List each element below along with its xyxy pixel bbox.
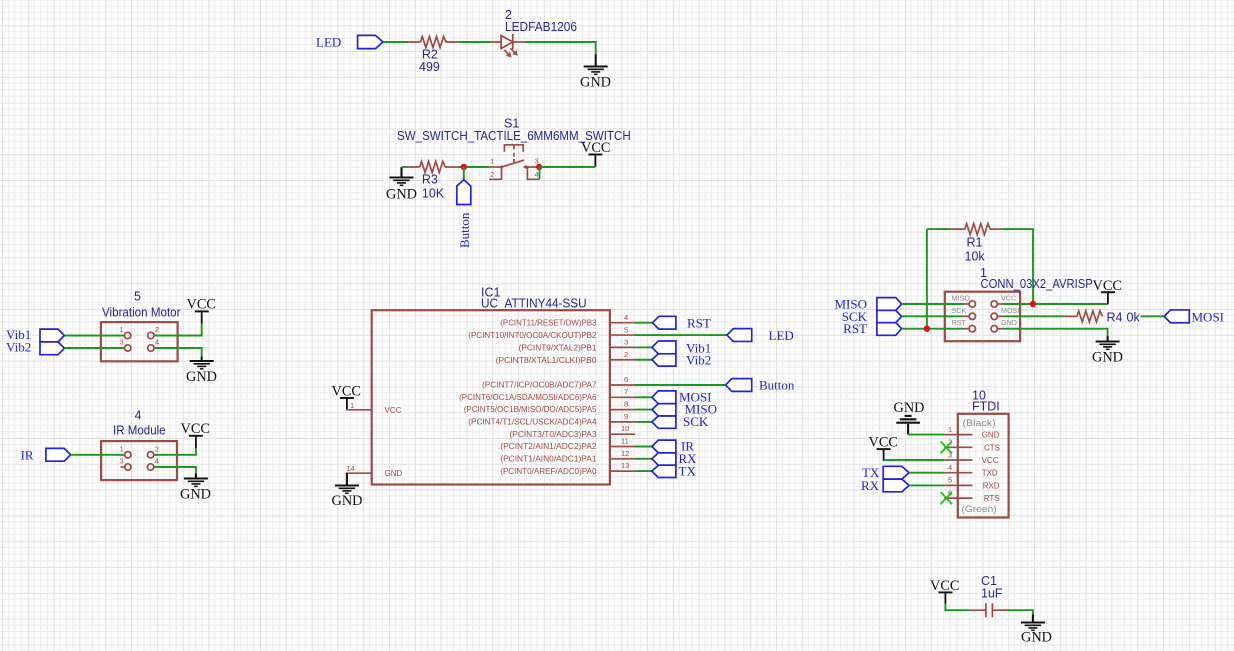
svg-text:13: 13 [621,461,629,470]
supply VCC (motor) [187,297,216,324]
port flag Vib2 (left) [6,340,64,355]
port flag Vib2 (IC) [652,353,711,368]
wire SCK flag to pad [902,315,964,317]
svg-text:GND: GND [180,487,211,503]
svg-text:TXD: TXD [982,469,998,478]
resistor R1 [952,224,1002,264]
wire D1 to GND [525,42,596,55]
svg-text:1: 1 [948,425,952,434]
svg-text:4: 4 [155,338,159,347]
svg-text:MOSI: MOSI [1192,309,1225,324]
supply VCC (IC left) [332,384,361,411]
wire junction to Button flag [463,167,465,180]
pin 6 RTS (FTDI) [944,488,999,503]
svg-text:MISO: MISO [952,294,971,303]
supply VCC (switch) [581,140,610,167]
wire R4 to MOSI flag [1141,315,1165,317]
pad RST (conn) [952,318,976,332]
svg-text:1: 1 [490,157,494,166]
svg-text:(PCINT0/AREF/ADC0)PA0: (PCINT0/AREF/ADC0)PA0 [500,467,597,476]
port flag RST (left) [843,321,901,336]
svg-text:Button: Button [759,377,795,392]
svg-text:2: 2 [624,350,628,359]
ground GND (FTDI) flipped [894,400,925,435]
wire pin6 to Button [635,384,726,386]
switch S1 symbol [489,145,539,180]
svg-text:7: 7 [624,387,628,396]
svg-text:MOSI: MOSI [1001,306,1019,315]
ground GND (C1) [1021,623,1052,646]
connector FTDI box [958,414,1009,518]
svg-text:LEDFAB1206: LEDFAB1206 [505,20,577,34]
pad 2 (motor) [148,325,159,339]
svg-text:3: 3 [624,338,628,347]
wire VCC to pin3 [884,459,945,461]
wire RST flag to pad [902,328,964,330]
wire pin12 to RX [635,458,652,460]
pin 5 RXD (FTDI) [944,476,1000,491]
svg-text:5: 5 [948,476,952,485]
wire pin11 to IR [635,446,652,448]
ground GND (motor) [186,361,217,385]
svg-text:VCC: VCC [1093,278,1122,294]
svg-text:Vib2: Vib2 [6,340,31,355]
port flag RX (FTDI) [861,478,909,493]
supply VCC (IR) [181,421,210,448]
wire C1 to GND [1007,610,1033,614]
svg-text:5: 5 [624,325,628,334]
port flag SCK (left) [842,309,902,324]
wire pin9 to SCK [635,421,652,423]
svg-text:4: 4 [535,170,539,179]
junction dot RST/R1 [924,326,930,332]
port flag SCK (IC) [652,414,709,429]
svg-text:SCK: SCK [952,306,967,315]
svg-text:GND: GND [1021,629,1052,645]
pin 2 CTS (FTDI) [944,438,1000,453]
svg-text:(Black): (Black) [963,418,996,428]
wire pin3 to Vib1 [635,346,652,348]
ground GND (IC left) [332,473,363,509]
svg-text:10k: 10k [965,250,986,264]
pad VCC (conn) [991,294,1016,308]
svg-text:VCC: VCC [187,297,216,313]
svg-text:VCC: VCC [1001,294,1016,303]
wire pad4 to GND [155,348,202,357]
svg-text:GND: GND [385,469,403,478]
resistor R3 [407,162,458,201]
pin 12 PA1 [500,449,635,464]
wire pin2 to Vib2 [635,359,652,361]
supply VCC (conn) [1093,278,1122,304]
pad 1 (motor) [120,325,131,339]
supply VCC (FTDI) [869,434,898,461]
wire pin13 to TX [635,470,652,472]
svg-text:GND: GND [386,187,417,203]
svg-text:GND: GND [894,400,925,416]
svg-text:LED: LED [316,35,341,50]
svg-text:1: 1 [350,401,354,410]
pad 2 (IR) [147,444,158,458]
ground GND (LED) [580,55,611,91]
svg-text:Vibration Motor: Vibration Motor [102,306,181,320]
wire VCC to C1 [945,604,969,611]
pad SCK (conn) [952,306,976,320]
svg-text:GND: GND [1092,350,1123,366]
port flag IR (IC) [652,439,694,454]
pad 3 (IR) [120,457,132,471]
svg-text:1: 1 [120,325,124,334]
wire VCC pad to VCC supply [1003,303,1108,305]
svg-text:GND: GND [1001,318,1017,327]
svg-text:9: 9 [624,412,628,421]
capacitor C1 [970,574,1007,617]
svg-text:(PCINT1/AIN0/ADC1)PA1: (PCINT1/AIN0/ADC1)PA1 [500,455,597,464]
svg-text:GND: GND [332,493,363,509]
port flag LED [316,35,383,50]
pin 6 PA7 [482,375,635,390]
pin 11 PA2 [500,437,635,452]
svg-text:R3: R3 [422,173,438,187]
wire R1 right branch [1001,229,1033,304]
junction dot VCC/R1 [1030,301,1036,307]
svg-text:VCC: VCC [930,578,959,594]
wire pad2 to VCC [155,323,202,336]
svg-text:VCC: VCC [581,140,610,156]
port flag TX (IC) [652,463,697,478]
wire junction to pin4 [539,168,541,180]
svg-text:(PCINT2/AIN1/ADC2)PA2: (PCINT2/AIN1/ADC2)PA2 [500,442,597,451]
svg-text:(PCINT6/OC1A/SDA/MOSI/ADC6)PA6: (PCINT6/OC1A/SDA/MOSI/ADC6)PA6 [459,393,597,402]
svg-text:2: 2 [155,444,159,453]
svg-text:(PCINT3/T0/ADC3)PA3: (PCINT3/T0/ADC3)PA3 [510,430,598,439]
svg-text:RXD: RXD [983,481,1000,490]
pin 4 TXD (FTDI) [944,463,998,478]
svg-text:1: 1 [120,444,124,453]
port flag TX (FTDI) [862,465,909,480]
svg-text:4: 4 [948,463,952,472]
svg-text:2: 2 [490,170,494,179]
pin 10 PA3 [510,424,636,439]
svg-text:CTS: CTS [984,443,1000,452]
pin 3 PB1 [519,338,635,353]
svg-text:(PCINT7/ICP/OC0B/ADC7)PA7: (PCINT7/ICP/OC0B/ADC7)PA7 [482,380,597,389]
svg-text:VCC: VCC [385,406,402,415]
resistor R4 [1064,310,1141,324]
pad 4 (IR) [147,457,158,471]
ground GND (IR) [180,479,211,503]
pad GND (conn) [991,318,1017,332]
no-connect X on CTS [941,441,952,453]
pin 4 PB3 [500,313,635,328]
pin 1 GND (FTDI) [944,425,999,440]
connector IR Module box [101,441,177,480]
port flag MOSI (right) [1164,309,1224,324]
pad MISO (conn) [952,294,976,308]
port flag Button (IC) [726,377,795,392]
svg-text:IR Module: IR Module [113,424,166,438]
wire GND to R3 [402,166,408,168]
svg-text:0k: 0k [1127,310,1141,324]
svg-text:CONN_03X2_AVRISP: CONN_03X2_AVRISP [981,277,1093,291]
pin 1 VCC [346,401,402,415]
pad MOSI (conn) [991,306,1019,320]
svg-text:4: 4 [155,457,159,466]
svg-text:R1: R1 [967,236,983,250]
wire MISO flag to pad [902,303,964,305]
wire pin7 to MOSI [635,396,652,398]
wire Vib2 to pad3 [64,347,124,349]
pin 13 PA0 [500,461,635,476]
svg-text:8: 8 [624,400,628,409]
port flag RST (IC) [653,316,711,331]
svg-text:(Green): (Green) [962,504,997,514]
wire pad2 to VCC [154,447,196,455]
svg-text:(PCINT4/T1/SCL/USCK/ADC4)PA4: (PCINT4/T1/SCL/USCK/ADC4)PA4 [468,418,597,427]
svg-text:12: 12 [621,449,629,458]
IC IC1 UC_ATTINY44-SSU outline [372,310,610,484]
ground GND (R3) [386,167,417,203]
svg-text:GND: GND [982,431,1000,440]
pad 3 (motor) [120,338,131,352]
wire R1 left branch [927,229,952,329]
wire pad4 to GND [154,467,196,474]
wire R3 to junction [458,166,489,168]
port flag Vib1 (IC) [652,340,711,355]
svg-text:GND: GND [186,369,217,385]
svg-text:4: 4 [135,409,142,423]
svg-text:(PCINT8/XTAL1/CLKI)PB0: (PCINT8/XTAL1/CLKI)PB0 [496,356,597,365]
svg-text:14: 14 [347,464,355,473]
svg-text:VCC: VCC [332,384,361,400]
svg-text:Button: Button [457,212,472,248]
svg-text:VCC: VCC [181,421,210,437]
svg-text:IR: IR [21,448,34,463]
pin 14 GND [346,464,403,478]
svg-text:FTDI: FTDI [972,400,1000,414]
svg-text:VCC: VCC [869,434,898,450]
wire Vib1 to pad1 [64,335,124,337]
svg-text:R4: R4 [1107,310,1123,324]
LED diode LEDFAB1206 [491,8,577,57]
port flag Vib1 (left) [6,327,64,342]
svg-text:499: 499 [419,60,440,74]
port flag MOSI (IC) [652,389,712,404]
wire IR to pad1 [71,454,125,456]
svg-text:LED: LED [769,328,794,343]
junction dot B [536,164,542,170]
wire GND to pin1 [908,434,944,436]
svg-text:(PCINT11/RESET/DW)PB3: (PCINT11/RESET/DW)PB3 [500,319,597,328]
port flag RX (IC) [652,451,697,466]
svg-text:3: 3 [120,457,124,466]
svg-text:RST: RST [687,316,711,331]
port flag MISO (left) [834,297,901,312]
wire pin8 to MISO [635,409,652,411]
pin 5 PB2 [468,325,635,340]
junction dot A [461,164,467,170]
svg-text:2: 2 [155,325,159,334]
port flag LED (IC) [727,328,794,343]
svg-text:10: 10 [621,424,629,433]
pin 8 PA5 [464,400,635,415]
svg-text:TX: TX [679,463,697,478]
port flag Button [457,180,472,248]
svg-text:VCC: VCC [982,456,999,465]
supply VCC (C1) [930,578,959,604]
svg-text:6: 6 [624,375,628,384]
connector Vibration Motor box [101,322,178,361]
wire GND pad to GND [1003,329,1108,336]
svg-text:RX: RX [861,478,880,493]
wire TX to pin4 [909,472,944,474]
pin 7 PA6 [459,387,635,402]
svg-text:3: 3 [120,338,124,347]
svg-text:(PCINT10/INT0/OC0A/CKOUT)PB2: (PCINT10/INT0/OC0A/CKOUT)PB2 [468,331,597,340]
pin 2 PB0 [496,350,635,365]
svg-text:RST: RST [952,318,967,327]
resistor R2 [408,37,458,75]
wire R2 to D1 [459,41,491,43]
svg-text:RST: RST [843,321,867,336]
wire MOSI pad to R4 [1003,315,1064,317]
svg-text:SCK: SCK [683,414,709,429]
pin 9 PA4 [468,412,635,427]
ground GND (conn) [1092,342,1123,366]
pad 4 (motor) [148,338,159,352]
svg-text:(PCINT9/XTAL2)PB1: (PCINT9/XTAL2)PB1 [519,343,597,352]
wire LED flag to R2 [383,41,408,43]
svg-text:4: 4 [624,313,628,322]
wire RX to pin5 [909,484,944,486]
svg-text:GND: GND [580,75,611,91]
port flag IR [21,448,71,463]
pin 3 VCC (FTDI) [944,450,999,465]
svg-text:(PCINT5/OC1B/MISO/DO/ADC5)PA5: (PCINT5/OC1B/MISO/DO/ADC5)PA5 [464,405,597,414]
connector CONN_03X2 box [945,292,1020,342]
svg-text:RTS: RTS [984,494,1000,503]
svg-text:1uF: 1uF [981,587,1003,601]
port flag MISO (IC) [652,402,717,417]
svg-text:UC_ATTINY44-SSU: UC_ATTINY44-SSU [481,297,587,311]
svg-text:5: 5 [134,290,141,304]
pad 1 (IR) [120,444,132,458]
svg-text:10K: 10K [422,187,445,201]
no-connect X on RTS [941,492,952,504]
wire pin4 to RST [635,322,653,324]
wire pin5 to LED [635,334,727,336]
svg-text:11: 11 [621,437,629,446]
wire junction to VCC [539,166,595,168]
svg-text:Vib2: Vib2 [686,353,711,368]
